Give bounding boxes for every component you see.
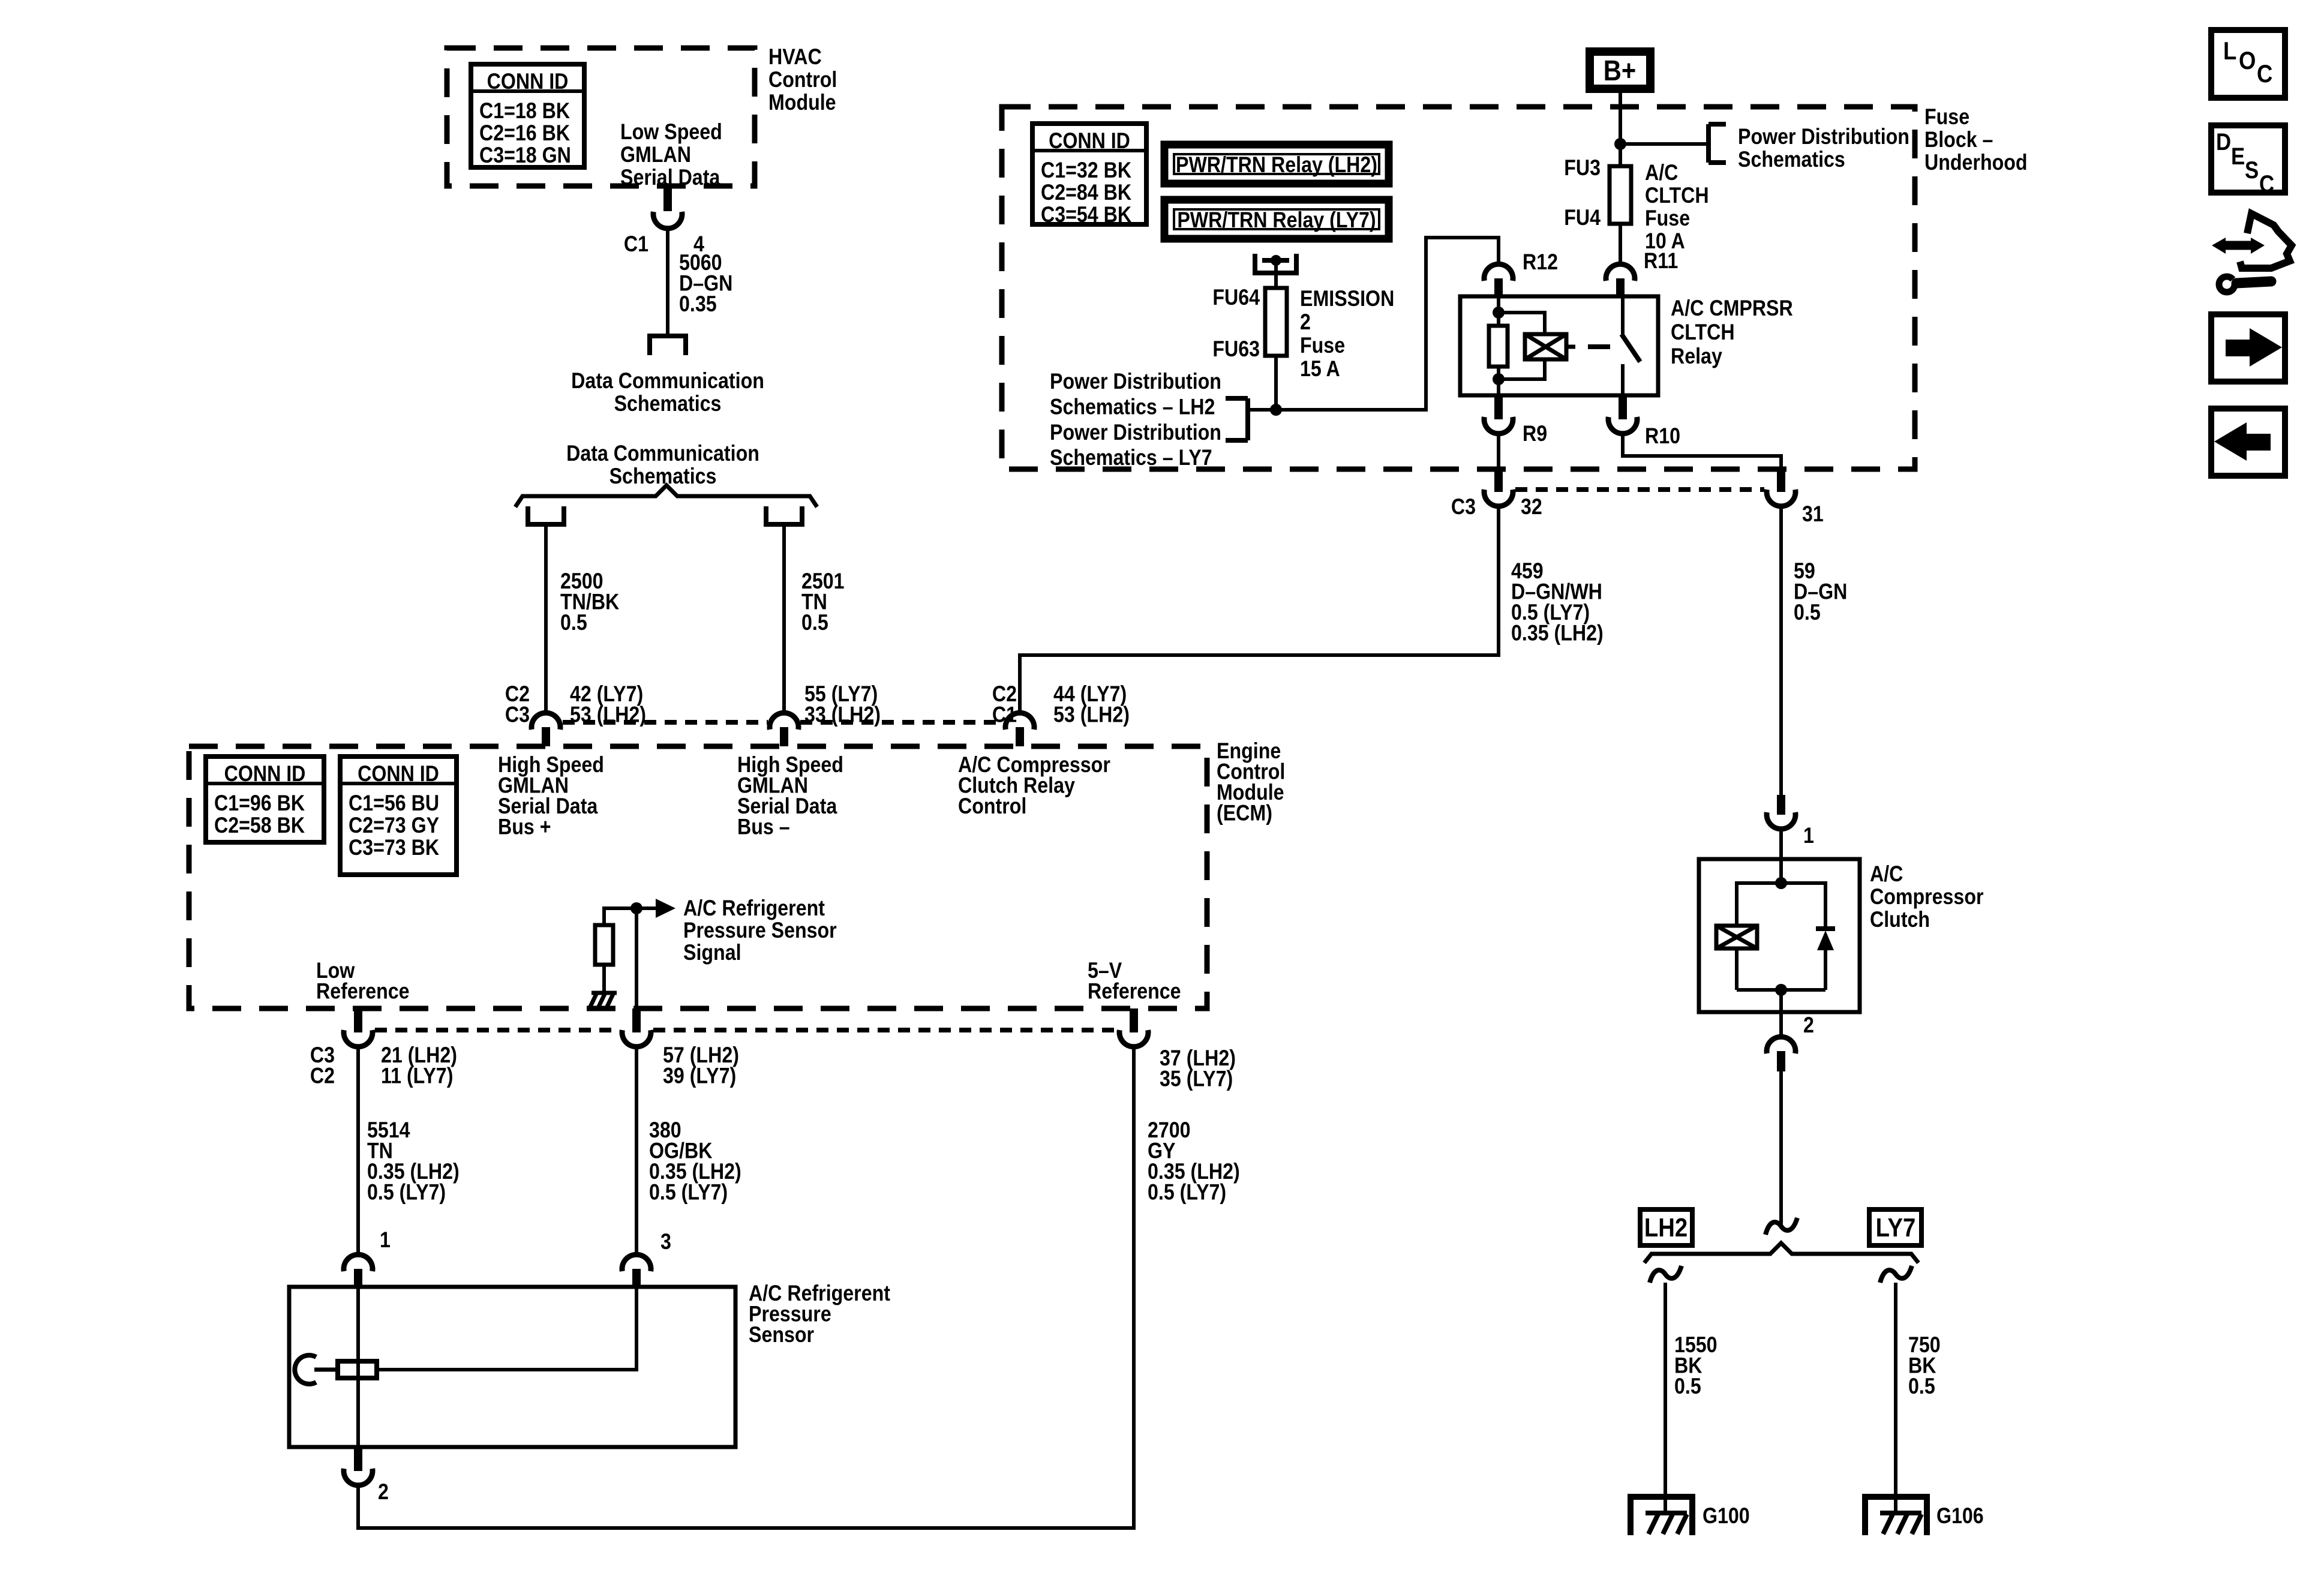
svg-text:C2=16 BK: C2=16 BK [479,121,570,146]
HVAC connector ID table [471,64,584,168]
svg-text:Power Distribution: Power Distribution [1050,421,1221,445]
label HVAC Control Module [768,45,837,115]
svg-text:C3=18 GN: C3=18 GN [479,143,571,168]
relay switch common [1621,296,1625,334]
svg-text:0.5: 0.5 [801,611,828,635]
svg-text:2: 2 [378,1480,389,1505]
svg-text:C2=73 GY: C2=73 GY [349,813,439,838]
svg-text:(ECM): (ECM) [1217,801,1272,825]
svg-text:S: S [2245,157,2259,184]
svg-text:Bus –: Bus – [737,815,790,839]
label pin 4 [693,232,705,257]
node signal junction [630,902,642,914]
label wire 59 D-GN [1794,559,1847,625]
node relay coil bottom [1493,373,1505,385]
svg-text:0.35 (LH2): 0.35 (LH2) [1511,621,1604,646]
svg-text:1: 1 [1803,824,1814,848]
label wire 459 D-GN/WH [1511,559,1604,646]
label C3 (fuse block) [1451,495,1476,520]
label pin 1 [380,1228,391,1253]
wire power distribution to relay coil [1248,238,1499,410]
label pin 3 [660,1230,671,1254]
svg-text:A/C Refrigerent: A/C Refrigerent [683,896,825,921]
label R11 [1644,249,1678,274]
relay actuator lead [1566,345,1575,349]
svg-text:A/C: A/C [1645,161,1678,185]
node clutch top [1775,877,1787,889]
svg-text:11 (LY7): 11 (LY7) [381,1064,453,1088]
svg-text:Fuse: Fuse [1924,105,1969,130]
label Engine Control Module (ECM) [1217,739,1285,825]
label pin 32 [1521,495,1542,520]
off-page bracket Power Distribution [1709,124,1726,163]
label wire 380 OG/BK [649,1118,741,1205]
inline connector dotted line (fuse block) [1515,487,1764,492]
svg-text:Clutch: Clutch [1870,908,1930,932]
connector cup signal [622,1008,651,1047]
svg-text:C3: C3 [505,703,530,727]
wire 59 to clutch [1779,507,1783,795]
svg-text:0.5: 0.5 [1908,1374,1935,1399]
connector C1 pin 4 stub [663,187,672,211]
svg-text:Module: Module [768,91,836,115]
label wire 2500 TN/BK 0.5 [560,569,619,635]
fuse FU64/FU63 EMISSION 2 [1265,288,1287,356]
label Fuse Block - Underhood [1924,105,2028,175]
label Data Communication Schematics (top) [571,369,764,416]
icon vehicle diagnostic [2212,214,2292,292]
svg-text:Power Distribution: Power Distribution [1738,125,1909,149]
off-page bracket right (bus -) [764,506,804,524]
svg-text:C2=84 BK: C2=84 BK [1041,181,1131,205]
wire port to element [314,1368,338,1372]
splice squiggle (top) [1765,1218,1797,1235]
label A/C CLTCH Fuse 10 A [1645,161,1709,254]
svg-text:Schematics: Schematics [614,392,722,416]
clutch return wire [1779,990,1783,1012]
label EMISSION 2 Fuse 15 A [1300,287,1394,382]
label wire 2700 GY [1148,1118,1240,1205]
label pin 2 [378,1480,389,1505]
connector clutch pin 2 [1767,1012,1795,1071]
wire FU63 to LH2/LY7 node [1274,356,1278,410]
svg-text:CLTCH: CLTCH [1671,320,1735,345]
svg-text:C: C [2259,170,2274,197]
label wire 5060 D-GN 0.35 [679,251,732,317]
relay coil resistor [1489,326,1508,367]
clutch diode [1816,929,1835,990]
svg-text:0.5: 0.5 [1674,1374,1701,1399]
svg-text:G106: G106 [1936,1504,1984,1529]
svg-text:GMLAN: GMLAN [620,143,691,167]
wire 1550 BK [1664,1283,1667,1497]
label FU3 [1564,156,1601,181]
relay switch blade [1622,334,1640,362]
HVAC Control Module dashed box [447,48,755,186]
label clutch pin 1 [1803,824,1814,848]
svg-text:Schematics – LH2: Schematics – LH2 [1050,395,1215,419]
connector dome R12 [1484,264,1513,296]
svg-text:Schematics: Schematics [1738,148,1845,172]
svg-text:CONN ID: CONN ID [224,762,306,786]
svg-text:CONN ID: CONN ID [358,762,439,786]
node bus junction [1271,255,1281,266]
svg-text:C: C [2257,60,2272,88]
icon DESC box [2211,125,2285,197]
ECM connector ID table 1 [206,757,324,842]
label FU63 [1212,337,1260,362]
label A/C Compressor Clutch Relay Control [958,753,1110,819]
Fuse Block dashed box [1002,107,1915,469]
connector dome A/C relay control [1005,713,1034,746]
svg-text:Control: Control [768,68,837,92]
svg-text:0.5: 0.5 [1794,601,1821,625]
svg-text:Relay: Relay [1671,344,1723,369]
svg-text:EMISSION: EMISSION [1300,287,1394,311]
ECM connector ID table 2 [340,757,457,875]
svg-text:Underhood: Underhood [1924,151,2028,175]
connector dome bus+ [532,713,560,746]
svg-text:CONN ID: CONN ID [487,70,569,94]
label Low Speed GMLAN Serial Data [620,120,722,190]
svg-text:Sensor: Sensor [749,1323,814,1347]
svg-text:Data Communication: Data Communication [566,442,759,466]
splice squiggle (LY7 branch) [1880,1266,1912,1283]
connector cup pin 31 [1767,470,1795,506]
label A/C Compressor Clutch [1870,862,1984,932]
connector dome sensor pin 1 [344,1254,373,1287]
connector cup R10 [1608,395,1637,434]
svg-text:FU63: FU63 [1212,337,1260,362]
relay coil symbol [1525,334,1566,359]
label Data Communication Schematics (mid) [566,442,759,489]
svg-text:Serial Data: Serial Data [620,166,720,190]
label pins 37/35 [1160,1046,1236,1091]
label A/C Refrigerent Pressure Sensor [749,1281,890,1347]
icon arrow next [2211,314,2285,382]
wire FU4 to R11 [1619,224,1622,265]
wire element to pin 3 [377,1287,636,1370]
wire 750 BK [1894,1283,1897,1497]
svg-text:C3=73 BK: C3=73 BK [349,836,439,860]
clutch bottom branch [1737,988,1825,992]
label C2 C3 [505,682,530,727]
wire R9 to C3-32 [1497,434,1500,470]
splice squiggle (LH2 branch) [1650,1266,1682,1283]
svg-text:2: 2 [1300,310,1311,335]
pull-up resistor [595,925,613,965]
svg-text:PWR/TRN Relay (LH2): PWR/TRN Relay (LH2) [1176,153,1377,178]
wire B+ to fuse [1619,93,1622,166]
svg-text:Signal: Signal [683,941,741,965]
wire bus to FU64 [1274,260,1278,288]
node FU63 junction [1270,404,1282,416]
label pins 42/53 [570,682,646,727]
label FU64 [1212,286,1260,310]
svg-text:0.5 (LY7): 0.5 (LY7) [367,1180,446,1205]
svg-text:53 (LH2): 53 (LH2) [1053,703,1130,727]
fuse block bus bracket above FU64 [1253,254,1299,273]
brace over data buses [515,485,817,507]
node clutch bottom [1775,984,1787,996]
connector cup 5-V reference [1119,1008,1148,1047]
label wire 2501 TN 0.5 [801,569,845,635]
battery B+ feed [1586,47,1655,93]
label pins 21/11 [381,1043,457,1088]
wire 2501 TN [782,524,786,712]
label wire 750 BK 0.5 [1908,1333,1941,1399]
wire 5060 D-GN [666,229,669,335]
svg-text:A/C: A/C [1870,862,1903,887]
clutch coil branch [1737,883,1825,929]
svg-text:31: 31 [1802,502,1824,527]
label A/C Refrigerent Pressure Sensor Signal [683,896,837,965]
svg-text:Bus +: Bus + [498,815,551,839]
label pins 55/33 [804,682,881,727]
icon LOC box [2211,30,2285,98]
label Low Reference [316,959,410,1004]
connector cup R9 [1484,395,1513,434]
svg-text:Reference: Reference [316,979,410,1004]
wire to power distribution bracket [1620,142,1709,146]
PWR/TRN Relay (LH2) reference box [1164,145,1389,184]
inline connector dotted line (ECM bottom) [375,1028,1117,1032]
svg-text:Schematics: Schematics [609,464,717,489]
off-page bracket left (bus +) [526,506,566,524]
label FU4 [1564,206,1601,230]
svg-text:Power Distribution: Power Distribution [1050,370,1221,394]
svg-text:Control: Control [958,794,1026,819]
wire 2700 GY return [358,1047,1134,1528]
svg-text:FU64: FU64 [1212,286,1260,310]
svg-text:R12: R12 [1523,250,1558,275]
svg-text:CONN ID: CONN ID [1049,129,1130,154]
wire pin1 to pin2 through sensor [356,1287,360,1447]
relay coil jog wire [1499,313,1545,334]
svg-text:1: 1 [380,1228,391,1253]
svg-text:32: 32 [1521,495,1542,520]
svg-text:Fuse: Fuse [1645,206,1690,231]
connector dome bus- [770,713,798,746]
ECM internal ground [589,993,617,1009]
label LH2 box [1640,1209,1692,1245]
A/C Compressor Clutch box [1699,859,1860,1012]
connector cup C3 pin 32 [1484,470,1513,506]
ground G100 [1628,1497,1695,1535]
svg-text:0.35: 0.35 [679,292,717,317]
svg-text:C1: C1 [624,232,648,257]
label 5-V Reference [1088,959,1181,1004]
svg-text:2: 2 [1803,1013,1814,1038]
svg-text:35 (LY7): 35 (LY7) [1160,1067,1233,1091]
connector cup low reference [344,1008,373,1047]
svg-text:FU3: FU3 [1564,156,1601,181]
connector C1 pin 4 cup [653,212,682,229]
svg-text:Reference: Reference [1088,979,1181,1004]
wire to clutch box [1779,830,1783,859]
wire sensor signal (inside ECM) [635,908,638,1008]
label pins 57/39 [663,1043,739,1088]
A/C CMPRSR CLTCH Relay box [1460,296,1658,395]
clutch coil bottom wire [1735,948,1739,990]
off-page bracket Power Distribution LH2/LY7 [1226,398,1248,440]
connector cup sensor pin 2 [344,1447,373,1485]
svg-text:PWR/TRN Relay (LY7): PWR/TRN Relay (LY7) [1177,208,1376,233]
svg-text:R10: R10 [1645,424,1680,449]
relay coil jog return [1499,359,1545,379]
wire resistor to ground [602,965,606,993]
relay switch output [1621,364,1625,395]
svg-text:C1=32 BK: C1=32 BK [1041,158,1131,183]
svg-text:Data Communication: Data Communication [571,369,764,394]
fuse block connector ID table [1032,124,1146,227]
svg-text:C1=96 BK: C1=96 BK [214,791,305,816]
svg-text:Compressor: Compressor [1870,885,1984,909]
Engine Control Module dashed box [189,746,1207,1008]
label Power Distribution Schematics (top) [1738,125,1909,172]
svg-text:D: D [2216,128,2231,155]
label R12 [1523,250,1558,275]
connector dome R11 [1606,264,1635,296]
svg-text:R11: R11 [1644,249,1678,274]
svg-text:L: L [2223,37,2236,65]
svg-text:R9: R9 [1523,422,1547,446]
wire 5514 TN [356,1047,360,1254]
fuse FU3/FU4 A/C CLTCH [1610,166,1631,224]
clutch coil symbol [1716,926,1757,948]
svg-text:C2: C2 [310,1064,335,1088]
svg-text:C3=54 BK: C3=54 BK [1041,203,1131,227]
wire to pull-up resistor [604,908,636,925]
label R10 [1645,424,1680,449]
connector dome sensor pin 3 [622,1254,651,1287]
icon arrow previous [2211,409,2285,476]
node B+ junction [1614,138,1626,150]
label clutch pin 2 [1803,1013,1814,1038]
node relay coil top [1493,307,1505,319]
svg-text:C1=56 BU: C1=56 BU [349,791,439,816]
sensor element [338,1361,377,1378]
svg-text:0.5 (LY7): 0.5 (LY7) [1148,1180,1226,1205]
svg-text:39 (LY7): 39 (LY7) [663,1064,736,1088]
label G100 [1703,1504,1750,1529]
svg-text:LH2: LH2 [1644,1213,1688,1242]
relay coil feed wire [1497,296,1500,326]
A/C Refrigerent Pressure Sensor box [289,1287,735,1447]
svg-text:Fuse: Fuse [1300,334,1345,358]
connector clutch pin 1 inline [1767,795,1795,829]
svg-text:G100: G100 [1703,1504,1750,1529]
svg-text:Pressure Sensor: Pressure Sensor [683,918,837,943]
wire clutch to splice [1779,1071,1783,1225]
label LY7 box [1869,1209,1921,1245]
arrow A/C Refrigerent Pressure Sensor Signal [636,899,675,918]
label pin 31 [1802,502,1824,527]
wire 2500 TN/BK [544,524,548,712]
label Power Distribution Schematics LH2/LY7 [1050,370,1221,470]
label High Speed GMLAN Serial Data Bus - [737,753,843,839]
label wire 5514 TN [367,1118,460,1205]
svg-text:0.5 (LY7): 0.5 (LY7) [649,1180,728,1205]
label wire 1550 BK 0.5 [1674,1333,1718,1399]
label C2 C1 [992,682,1017,727]
PWR/TRN Relay (LY7) reference box [1164,200,1389,239]
svg-text:Low Speed: Low Speed [620,120,722,145]
label High Speed GMLAN Serial Data Bus + [498,753,604,839]
svg-text:E: E [2231,143,2245,170]
svg-text:A/C CMPRSR: A/C CMPRSR [1671,296,1793,321]
svg-text:3: 3 [660,1230,671,1254]
off-page bracket to Data Communication Schematics [647,336,688,355]
svg-text:C1=18 BK: C1=18 BK [479,99,570,124]
label pins 44/53 [1053,682,1130,727]
label C3 C2 [310,1043,335,1088]
label C1 [624,232,648,257]
sensor pressure port arc [295,1355,316,1384]
svg-text:O: O [2239,47,2256,75]
svg-text:0.5: 0.5 [560,611,587,635]
svg-text:FU4: FU4 [1564,206,1601,230]
wire 380 OG/BK [635,1047,638,1254]
wire coil bottom [1497,367,1500,395]
svg-text:B+: B+ [1604,54,1637,86]
svg-text:Schematics – LY7: Schematics – LY7 [1050,446,1212,470]
svg-text:CLTCH: CLTCH [1645,184,1709,208]
wire 459 to ECM [1020,507,1499,712]
svg-text:15 A: 15 A [1300,357,1340,382]
label R9 [1523,422,1547,446]
svg-text:Block –: Block – [1924,128,1993,152]
svg-text:C3: C3 [1451,495,1476,520]
svg-text:C2=58 BK: C2=58 BK [214,813,305,838]
label A/C CMPRSR CLTCH Relay [1671,296,1793,369]
svg-text:HVAC: HVAC [768,45,822,70]
clutch feed wire [1779,859,1783,883]
label G106 [1936,1504,1984,1529]
inline connector dotted line (ECM top) [563,720,1004,725]
split brace [1644,1243,1918,1263]
ground G106 [1862,1497,1930,1535]
relay actuator dashed link [1588,344,1610,349]
svg-text:LY7: LY7 [1876,1213,1916,1242]
wire R10 to pin 31 [1623,434,1781,470]
